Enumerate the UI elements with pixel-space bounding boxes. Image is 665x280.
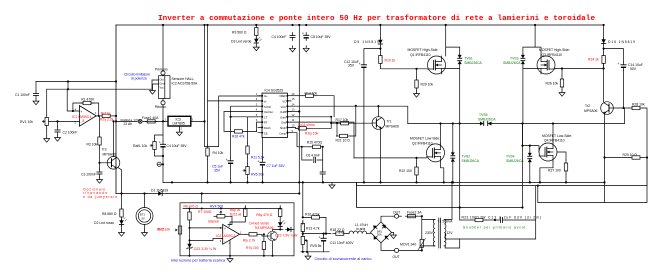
svg-text:R14 10k: R14 10k <box>305 92 318 96</box>
svg-text:RV1 10k: RV1 10k <box>20 120 33 124</box>
svg-text:Tr3: Tr3 <box>102 148 107 152</box>
wire op-amp + input feed <box>67 82 79 112</box>
svg-text:22 Ah: 22 Ah <box>124 122 133 126</box>
svg-text:Out: Out <box>160 78 164 82</box>
svg-text:Shdn: Shdn <box>280 126 287 130</box>
battery BT1 <box>136 194 153 225</box>
svg-text:D2 Led rosso: D2 Led rosso <box>94 221 114 225</box>
svg-text:OUT: OUT <box>393 211 400 215</box>
MOSFET Q1 <box>428 56 446 74</box>
wire R2 to base node <box>100 148 108 163</box>
svg-text:10: 10 <box>292 124 295 128</box>
svg-text:SS: SS <box>264 131 268 135</box>
svg-text:C6 4,6nF: C6 4,6nF <box>306 153 320 157</box>
resistor Rly 2.7k <box>243 233 260 243</box>
svg-text:VCC: VCC <box>281 105 287 109</box>
svg-text:SMBJ26CA: SMBJ26CA <box>464 61 482 65</box>
svg-text:35V: 35V <box>214 168 221 172</box>
wire R1 feedback <box>73 103 99 116</box>
ground under box <box>227 256 233 262</box>
bridge BR1 <box>371 222 392 243</box>
connector battery <box>138 120 142 124</box>
svg-text:+: + <box>258 159 260 163</box>
svg-text:D4 led Verde: D4 led Verde <box>249 222 269 226</box>
wire Tr2 emitter down <box>604 113 605 203</box>
wire output down to R2 <box>99 116 101 134</box>
ground under RV5 <box>305 252 311 260</box>
resistor R14 <box>291 92 317 98</box>
transistor Tr3b <box>268 231 278 241</box>
wire sense line <box>303 233 331 235</box>
resistor R26 <box>546 69 564 91</box>
svg-text:Tr2: Tr2 <box>585 104 590 108</box>
svg-text:6: 6 <box>256 118 258 122</box>
wire R13 to RV5 <box>302 231 304 236</box>
TVS4 <box>506 146 532 183</box>
svg-text:3: 3 <box>256 102 258 106</box>
capacitor C11 <box>319 234 355 252</box>
svg-text:2: 2 <box>181 127 183 131</box>
svg-text:R17 10k: R17 10k <box>336 118 349 122</box>
svg-text:R23 100Ω 2W: R23 100Ω 2W <box>462 215 487 219</box>
svg-text:R25 10 Ω: R25 10 Ω <box>623 153 638 157</box>
TVS2 <box>451 124 480 183</box>
ground under C2 <box>55 135 61 141</box>
ground under R26 <box>559 90 565 96</box>
svg-text:Sensore HALL,: Sensore HALL, <box>172 77 195 81</box>
box interruzione batteria <box>180 203 294 256</box>
wire bottom rail of sovracorrente <box>301 247 329 251</box>
svg-text:1: 1 <box>95 111 97 115</box>
svg-text:C1 100nF: C1 100nF <box>15 93 30 97</box>
svg-text:R6 470 Ω: R6 470 Ω <box>184 205 199 209</box>
resistor R11 <box>246 143 265 159</box>
capacitor C14 <box>618 62 643 71</box>
svg-text:C4 100nF: C4 100nF <box>272 35 287 39</box>
ground symbol on rail <box>329 182 335 188</box>
capacitor C12 <box>344 60 367 70</box>
svg-text:in aria: in aria <box>356 227 365 231</box>
ground under C8 <box>303 46 309 52</box>
wire Tr3 collector up <box>113 121 115 156</box>
svg-text:50V: 50V <box>630 67 637 71</box>
resistor R20 <box>415 69 434 91</box>
svg-text:RT: RT <box>264 121 268 125</box>
svg-text:Rly 2.7k: Rly 2.7k <box>243 238 256 242</box>
wire output <box>240 233 247 235</box>
svg-text:In+: In+ <box>264 94 268 98</box>
resistor R8 <box>102 194 123 221</box>
resistor R19 <box>379 49 396 67</box>
svg-text:SYNC: SYNC <box>264 105 271 109</box>
resistor R4 <box>206 145 224 159</box>
svg-text:TVS1: TVS1 <box>464 56 473 60</box>
MOSFET Q4 <box>539 143 557 161</box>
wire IC3 output 5V <box>191 24 261 147</box>
svg-text:Fuse1 40A: Fuse1 40A <box>142 116 159 120</box>
connector Ritorno <box>155 99 166 109</box>
resistor R13 <box>301 221 320 235</box>
svg-text:OutA: OutA <box>280 115 286 119</box>
ground under D2 <box>119 225 125 236</box>
svg-text:C2 100nF: C2 100nF <box>63 131 78 135</box>
wire pin9 to R15 node <box>291 133 302 147</box>
fuse Fuse1 <box>142 116 159 123</box>
inductor L1 <box>339 223 371 234</box>
svg-text:MPSA06: MPSA06 <box>386 125 399 129</box>
wire hall primario drop x=163 <box>162 25 164 71</box>
TVS1 <box>458 47 483 65</box>
svg-text:R15 470Ω: R15 470Ω <box>307 141 323 145</box>
wire Q3 drain from rail <box>535 25 541 56</box>
capacitor C15 <box>159 141 188 150</box>
svg-text:IC4 SG3525: IC4 SG3525 <box>265 89 284 93</box>
svg-text:R1ly 10k: R1ly 10k <box>305 131 318 135</box>
svg-text:R21 10 Ω: R21 10 Ω <box>336 139 351 143</box>
svg-text:DZ1 3,3V ¼ W: DZ1 3,3V ¼ W <box>194 247 217 251</box>
resistor R28 <box>624 102 648 157</box>
svg-text:MOSFET High-Side:: MOSFET High-Side: <box>539 48 570 52</box>
svg-text:-: - <box>224 239 225 243</box>
svg-text:D3 Led verde: D3 Led verde <box>231 39 251 43</box>
svg-text:R7 100Ω: R7 100Ω <box>198 210 212 214</box>
wire R16 to pin6 <box>245 122 258 131</box>
MOSFET Q3 <box>537 56 555 74</box>
diode D16 <box>601 25 635 45</box>
svg-text:+: + <box>302 32 304 36</box>
svg-text:R28 10k: R28 10k <box>632 102 645 106</box>
svg-text:Rall1 10k: Rall1 10k <box>133 144 147 148</box>
zener DZ1 <box>187 243 217 256</box>
varistor MOV1 <box>400 220 425 251</box>
svg-text:R13 4,7k: R13 4,7k <box>306 227 320 231</box>
svg-text:di potenza: di potenza <box>131 76 147 80</box>
resistor R15 <box>302 141 324 149</box>
wire sensor gnd pin <box>153 84 159 88</box>
transistor Tr3 <box>107 157 120 170</box>
wire pin4 to R16 <box>224 112 258 132</box>
svg-text:9V: 9V <box>142 217 145 221</box>
trimmer RV4 <box>198 205 228 224</box>
wire pin5 to R11 col <box>248 117 259 143</box>
resistor R1 <box>80 97 95 104</box>
svg-text:R8 680 Ω: R8 680 Ω <box>102 212 117 216</box>
wire +12 long drop x=299.3 <box>298 25 300 194</box>
svg-text:12V: 12V <box>447 231 454 235</box>
wire opamp ground pin <box>229 241 231 256</box>
node junction dots on top rail <box>162 24 605 26</box>
svg-text:Interruzione per batteria scar: Interruzione per batteria scarica <box>171 259 226 263</box>
resistor R21 <box>336 106 356 143</box>
svg-text:Inverter a commutazione e pont: Inverter a commutazione e ponte intero 5… <box>158 15 595 23</box>
connector Primario <box>155 68 168 76</box>
svg-text:+: + <box>319 236 321 240</box>
connector OUT top <box>393 211 400 219</box>
svg-text:D1 1N5819: D1 1N5819 <box>151 189 168 193</box>
svg-text:OUT: OUT <box>393 255 400 259</box>
svg-text:4: 4 <box>256 108 258 112</box>
svg-text:R16 47k: R16 47k <box>232 135 245 139</box>
svg-text:MPSA06: MPSA06 <box>584 109 597 113</box>
transistor Tr2 <box>601 102 614 115</box>
svg-text:Comp: Comp <box>279 131 286 135</box>
resistor R24 <box>588 49 605 67</box>
wire Q2 drain up to node A <box>440 124 442 145</box>
wire node A to primary drive <box>459 208 461 221</box>
wire op-amp output <box>96 115 99 117</box>
svg-text:15: 15 <box>292 97 295 101</box>
svg-text:MPSA06: MPSA06 <box>103 153 116 157</box>
svg-text:R1 470K: R1 470K <box>81 97 95 101</box>
wire node A line <box>408 123 479 125</box>
transformer T1 <box>425 218 453 248</box>
connector minus <box>157 162 163 166</box>
svg-text:230V: 230V <box>425 231 434 235</box>
svg-text:R24 1k: R24 1k <box>588 58 599 62</box>
capacitor C3 <box>81 163 102 177</box>
svg-text:CT: CT <box>264 115 268 119</box>
wire pin3 loop <box>231 106 258 117</box>
svg-text:R16 470k: R16 470k <box>305 213 320 217</box>
wire node B line <box>493 123 625 125</box>
capacitor C6 <box>302 147 323 163</box>
potentiometer RV1 <box>20 89 48 128</box>
wire top +12V rail <box>116 24 604 26</box>
resistor R16b blue <box>231 130 245 139</box>
potentiometer Rall1 <box>133 135 163 156</box>
wire divider line to C1 <box>36 81 116 83</box>
wire node A vertical <box>459 65 461 208</box>
svg-text:RV2 10k: RV2 10k <box>157 228 170 232</box>
svg-text:OutB: OutB <box>280 110 286 114</box>
svg-text:+: + <box>224 227 226 231</box>
wire R14 to x=334.1 down <box>317 96 335 117</box>
wire bootstrap branch left <box>364 46 381 63</box>
svg-text:Q2 IRFB4110: Q2 IRFB4110 <box>412 141 433 145</box>
resistor R2 <box>87 134 102 148</box>
wire Tr2 collector <box>603 64 605 102</box>
ground under BT1 <box>142 225 148 237</box>
trimmer RV6 <box>243 157 264 178</box>
wire box bottom rail dots <box>189 255 274 257</box>
wire column to gnd rail <box>162 150 164 183</box>
capacitor C8 <box>302 32 331 41</box>
wire battery plus line <box>116 120 165 122</box>
wire Q2 gate line <box>354 157 427 159</box>
ground under R20 <box>414 91 420 97</box>
svg-text:D5 1N5819: D5 1N5819 <box>354 40 379 44</box>
ground under C1 <box>33 99 39 105</box>
svg-text:e da jumperare: e da jumperare <box>83 195 117 199</box>
svg-text:Gnd: Gnd <box>160 82 165 86</box>
ground under IC3 <box>176 126 182 136</box>
svg-text:MOSFET High-Side:: MOSFET High-Side: <box>408 48 439 52</box>
resistor R12 pin10 <box>291 127 331 130</box>
wire ritorno down to fuse node <box>162 105 164 122</box>
wire Tr1 emitter to rail <box>380 128 382 182</box>
svg-text:MOSFET Low-Side:: MOSFET Low-Side: <box>410 137 440 141</box>
svg-text:R27 100: R27 100 <box>548 169 561 173</box>
capacitor C4 <box>272 33 296 41</box>
svg-text:13: 13 <box>292 108 295 112</box>
svg-text:5: 5 <box>256 113 258 117</box>
wire Q2 source to rail <box>441 162 444 182</box>
svg-text:Gnd: Gnd <box>281 121 286 125</box>
resistor R27 <box>548 152 568 182</box>
ground under D3 <box>253 45 259 51</box>
wire rail G2 lower loop <box>538 186 647 203</box>
wire hall signal line <box>47 80 159 89</box>
wire rail G3 <box>357 182 523 207</box>
svg-text:Tr3 MPSA06: Tr3 MPSA06 <box>254 226 273 230</box>
wire node B drop to G3 <box>522 124 524 208</box>
wire rail G2 <box>357 158 647 186</box>
ground sensor <box>150 88 156 94</box>
MOSFET Q2 <box>427 144 445 162</box>
wire snubber right leg <box>445 186 536 239</box>
resistor R7y <box>246 234 266 256</box>
resistor R6 <box>184 205 199 224</box>
svg-text:Q1 IRFB4110: Q1 IRFB4110 <box>410 53 431 57</box>
resistor R25 <box>603 153 647 159</box>
wire Q4 gate feed <box>523 124 540 153</box>
svg-text:12: 12 <box>292 113 295 117</box>
svg-text:Circuito di sovracorrente al c: Circuito di sovracorrente al carico <box>315 257 372 261</box>
ground under RV1 <box>44 128 50 142</box>
wire RV1 wiper to op-amp - input <box>49 120 79 122</box>
wire secondary top <box>445 182 452 219</box>
capacitor C9 <box>320 160 325 182</box>
svg-text:RV5 5k: RV5 5k <box>310 244 321 248</box>
svg-text:35V: 35V <box>348 64 355 68</box>
LED D2 <box>94 218 127 227</box>
ground under C3 <box>97 177 103 183</box>
resistor Rx11p mod <box>99 114 116 117</box>
svg-text:9: 9 <box>292 129 294 133</box>
svg-text:MOSFET Low-Side:: MOSFET Low-Side: <box>542 134 572 138</box>
wire ground rail G1a <box>163 181 357 183</box>
svg-text:D16 1N5819: D16 1N5819 <box>608 40 635 44</box>
TVS5 across primary <box>478 113 496 126</box>
diode D5 <box>354 25 383 46</box>
svg-text:C11 10nF 400V: C11 10nF 400V <box>330 241 354 245</box>
svg-text:Q3 IRFB4110: Q3 IRFB4110 <box>542 53 563 57</box>
wire Q1 drain from rail <box>446 25 460 56</box>
svg-text:-: - <box>80 121 81 125</box>
wire C14 down to Tr2 base node <box>623 70 625 107</box>
svg-text:Vcc: Vcc <box>160 86 165 90</box>
wire box feed from D1 line <box>201 194 203 203</box>
wire bridge top to out line <box>381 216 395 222</box>
svg-text:R1y 2,2k: R1y 2,2k <box>100 118 114 122</box>
svg-text:Ritorno: Ritorno <box>155 105 166 109</box>
svg-text:SMBJ26CA: SMBJ26CA <box>462 159 480 163</box>
wire secondary bottom loop <box>445 239 460 248</box>
wire Q3 gate line <box>555 68 604 70</box>
wire battery feed rail y=193.5 <box>116 193 299 195</box>
svg-text:C13 2,2uF 63V (di 2m): C13 2,2uF 63V (di 2m) <box>488 215 541 219</box>
svg-text:BT1: BT1 <box>140 213 145 217</box>
svg-text:C7 1uF 35V: C7 1uF 35V <box>267 164 286 168</box>
svg-text:Q4 IRFB4110: Q4 IRFB4110 <box>544 139 565 143</box>
svg-text:2: 2 <box>256 97 258 101</box>
svg-text:C8 10uF 35V: C8 10uF 35V <box>311 35 332 39</box>
wire RV4 to opamp <box>228 216 232 224</box>
svg-text:R20 10k: R20 10k <box>421 83 434 87</box>
wire Q4 drain up to node B <box>552 124 554 144</box>
svg-text:Isteresi: Isteresi <box>208 219 219 223</box>
svg-text:1: 1 <box>165 118 167 122</box>
svg-text:R22 100: R22 100 <box>399 169 412 173</box>
regulator IC3 LM7805 <box>168 116 191 126</box>
diode D1 <box>151 189 168 196</box>
svg-text:+: + <box>226 158 228 162</box>
svg-text:3: 3 <box>192 118 194 122</box>
wire bootstrap branch right <box>604 45 624 62</box>
wire feed col x=302.8 <box>302 182 304 217</box>
wire 12V drop to IC4 pin2 col x=207.5 <box>208 25 259 145</box>
resistor R6y2 <box>230 206 247 225</box>
IC4 SG3525 <box>256 89 295 138</box>
svg-text:+: + <box>159 141 161 145</box>
wire Q4 source to rail <box>540 161 553 182</box>
LED D3 <box>231 37 261 44</box>
svg-text:DZ2 7,9V ¼ W: DZ2 7,9V ¼ W <box>275 233 298 237</box>
wire C5 column <box>230 117 232 158</box>
svg-text:SMBJ26CA: SMBJ26CA <box>506 159 524 163</box>
capacitor C2 <box>55 121 77 135</box>
svg-text:R4 10k: R4 10k <box>213 151 224 155</box>
svg-text:TVS3: TVS3 <box>510 56 519 60</box>
svg-text:1: 1 <box>256 92 258 96</box>
wire IC3 input <box>163 120 168 122</box>
wire Tr2 base node <box>613 107 623 108</box>
capacitor C5 <box>212 158 233 173</box>
capacitor C1 <box>15 82 39 99</box>
svg-text:2: 2 <box>220 239 222 243</box>
svg-text:LM7805: LM7805 <box>173 121 185 125</box>
svg-text:Tr1: Tr1 <box>387 120 392 124</box>
snubber R23 <box>460 215 487 221</box>
wire box top rail <box>183 208 280 210</box>
svg-text:R7y 100: R7y 100 <box>246 246 259 250</box>
ground at bridge <box>391 232 397 238</box>
svg-text:R19 1k: R19 1k <box>385 59 396 63</box>
wire battery sense column x=163 lower <box>162 121 164 141</box>
wire pin12 lane vertical <box>291 117 337 136</box>
op-amp IC2b <box>220 224 242 245</box>
wire rail G1b <box>357 181 605 183</box>
svg-text:TVS5: TVS5 <box>479 113 488 117</box>
svg-text:50A: 50A <box>377 233 382 237</box>
svg-text:Rx11 ohms: Rx11 ohms <box>298 123 315 127</box>
resistor R16 470k <box>303 213 326 234</box>
svg-text:MOV1 340: MOV1 340 <box>400 242 416 246</box>
op-amp IC1 <box>74 106 97 127</box>
svg-text:VC: VC <box>282 100 286 104</box>
zener DZ2 <box>280 227 294 231</box>
pot RV2 on box edge <box>157 226 182 234</box>
svg-text:R26 10k: R26 10k <box>546 82 559 86</box>
resistor R6y <box>256 206 282 220</box>
svg-text:SMBJ26CA: SMBJ26CA <box>478 117 496 121</box>
svg-text:Fuse2 3A: Fuse2 3A <box>407 211 422 215</box>
svg-text:T1 500VA: T1 500VA <box>438 220 454 224</box>
wire pin14 long line to power <box>291 106 408 123</box>
wire Q1 source tie to TVS <box>442 68 460 70</box>
snubber C13 <box>486 215 541 222</box>
svg-text:11: 11 <box>292 118 295 122</box>
